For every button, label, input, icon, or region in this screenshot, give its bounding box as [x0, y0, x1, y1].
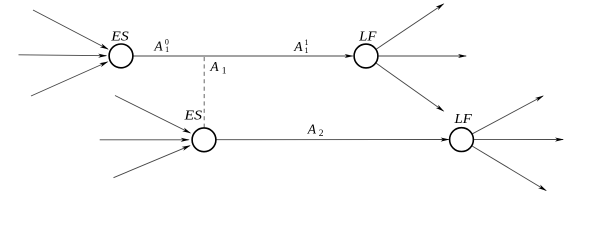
svg-text:1: 1: [305, 46, 309, 55]
svg-text:A: A: [293, 39, 303, 54]
arrow out of node LF1 to right: [379, 54, 467, 58]
svg-text:ES: ES: [183, 108, 202, 123]
label A2 on bottom activity: [307, 121, 324, 139]
activity segment A2: line ES2 to LF2: [216, 138, 450, 142]
svg-text:A: A: [209, 59, 219, 74]
node ES1 (top early-start event circle): [109, 44, 133, 68]
node LF1 (top late-finish event circle): [354, 44, 378, 68]
arrow into node ES2 from left: [100, 138, 190, 142]
arrow out of node LF2 to right: [474, 138, 564, 142]
svg-text:2: 2: [319, 129, 324, 139]
arrow into node ES2 from lower left: [114, 145, 191, 177]
activity segment A1^0/A1^1: line ES1 to LF1: [133, 54, 354, 58]
arrow out of node LF2 to upper right: [473, 96, 544, 134]
label A1 on dashed line: [209, 59, 226, 77]
label A1^0 on first segment: [153, 37, 169, 54]
svg-text:A: A: [307, 121, 317, 136]
arrow into node ES1 from lower left: [31, 62, 108, 97]
arrow out of node LF2 to lower right: [472, 146, 547, 191]
arrow into node ES1 from left: [19, 54, 108, 58]
arrow into node ES2 from upper left: [115, 96, 191, 134]
svg-text:1: 1: [165, 45, 169, 54]
svg-text:LF: LF: [358, 29, 377, 44]
label A1^1 on second segment: [293, 38, 308, 55]
svg-text:1: 1: [222, 66, 227, 76]
svg-text:ES: ES: [110, 30, 129, 45]
svg-text:A: A: [153, 38, 163, 53]
dashed dependency line of activity A1: [203, 57, 205, 127]
arrow out of node LF1 to lower right: [376, 63, 444, 111]
arrow out of node LF1 to upper right: [377, 3, 445, 49]
node ES2 (bottom early-start event circle): [192, 128, 216, 152]
arrow into node ES1 from upper left: [33, 10, 109, 50]
svg-text:LF: LF: [453, 112, 472, 127]
node LF2 (bottom late-finish event circle): [450, 128, 474, 152]
